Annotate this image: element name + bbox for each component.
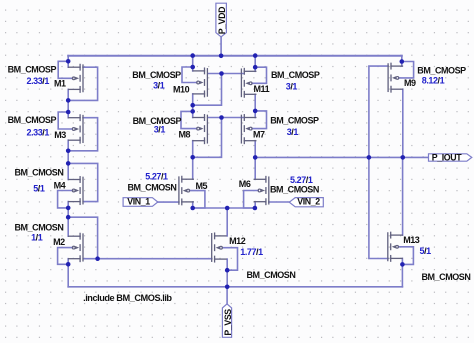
node M2 gate bias tap	[95, 256, 100, 261]
wire M1 gate-drain diode	[58, 61, 72, 78]
transistor M4	[79, 177, 81, 183]
wire M12 to VSS rail	[226, 270, 228, 287]
svg-text:VIN_1: VIN_1	[127, 196, 150, 206]
svg-text:BM_CMOSP: BM_CMOSP	[270, 115, 319, 125]
transistor M13	[390, 232, 392, 238]
wire output rail to P_IOUT	[255, 156, 428, 158]
svg-text:3/1: 3/1	[153, 80, 165, 90]
wire M12 source down	[226, 259, 228, 270]
wire M6 source down	[254, 202, 256, 208]
port P_VDD	[216, 3, 227, 37]
node M13 source junction	[400, 262, 405, 267]
wire M8 source down to node A	[192, 141, 194, 180]
node M3 top junction	[66, 110, 71, 115]
svg-text:P_IOUT: P_IOUT	[432, 152, 462, 162]
svg-text:5.27/1: 5.27/1	[145, 171, 168, 181]
wire bias to M12 gate	[98, 258, 212, 260]
transistor M7	[243, 115, 245, 121]
wire M2 source down	[67, 259, 69, 265]
node A junction	[190, 155, 195, 160]
wire M7 bulk detour	[252, 111, 267, 129]
node M8 bulk junction	[190, 109, 195, 114]
svg-text:3/1: 3/1	[287, 127, 299, 137]
svg-text:BM_CMOSN: BM_CMOSN	[15, 223, 64, 233]
node M5 source junction	[190, 206, 195, 211]
svg-text:M11: M11	[254, 84, 270, 94]
wire M6 gate to VIN_2	[269, 201, 290, 203]
wire VDD rail drop to M9	[401, 56, 403, 67]
port P_IOUT	[8, 53, 472, 303]
svg-text:5/1: 5/1	[420, 246, 432, 256]
svg-text:5.27/1: 5.27/1	[290, 175, 313, 185]
node M11 bulk junction	[253, 65, 258, 70]
node M9 gate output junction	[367, 155, 372, 160]
wire M10-M11 gate mirror	[208, 73, 243, 75]
transistor M6	[265, 177, 267, 183]
svg-text:1.77/1: 1.77/1	[240, 247, 263, 257]
svg-text:BM_CMOSN: BM_CMOSN	[422, 272, 471, 282]
node M4 top junction	[66, 161, 71, 166]
transistor M1	[79, 64, 81, 70]
wire M4 bulk to source	[58, 191, 73, 208]
wire VDD to M11	[254, 56, 256, 72]
node M2 source junction	[66, 262, 71, 267]
svg-text:.include BM_CMOS.lib: .include BM_CMOS.lib	[83, 293, 172, 303]
transistor M12	[214, 233, 216, 239]
wire M4 source down	[67, 202, 69, 208]
wire VDD rail	[68, 55, 402, 57]
svg-text:2.33/1: 2.33/1	[27, 127, 50, 137]
wire M12 drain up	[226, 208, 228, 236]
transistor M8	[204, 115, 206, 121]
node M1 drain junction	[66, 59, 71, 64]
node mirror gate junction	[219, 71, 224, 76]
svg-text:M12: M12	[229, 236, 246, 246]
wire tail	[193, 207, 255, 209]
wire M1 gate loop	[68, 67, 97, 100]
wire VDD to M10	[192, 56, 194, 71]
wire M10 drain down	[192, 94, 194, 118]
wire M13 to VSS rail	[401, 264, 403, 286]
node P_VDD rail junction	[219, 54, 224, 59]
wire M2 gate-drain loop	[68, 217, 97, 259]
wire M3 source down	[67, 140, 69, 151]
svg-text:3/1: 3/1	[286, 82, 298, 92]
svg-text:1/1: 1/1	[31, 232, 43, 242]
svg-text:3/1: 3/1	[154, 124, 166, 134]
transistor M5	[181, 176, 183, 182]
svg-text:BM_CMOSP: BM_CMOSP	[271, 70, 320, 80]
wire M4 gate-drain loop	[68, 163, 98, 201]
node M7 bulk junction	[253, 109, 258, 114]
svg-text:VIN_2: VIN_2	[297, 196, 320, 206]
node output rail drain junction	[401, 155, 406, 160]
port P_VSS	[222, 304, 233, 337]
svg-text:M3: M3	[54, 130, 66, 140]
wire M3 gate loop	[68, 118, 97, 151]
node M10 drain junction	[190, 103, 195, 108]
node VSS rail junction	[225, 285, 230, 290]
transistor M2	[79, 233, 81, 239]
svg-text:BM_CMOSN: BM_CMOSN	[128, 183, 177, 193]
node M1-M3 junction	[66, 98, 71, 103]
node M10 bulk junction	[190, 65, 195, 70]
node M9 source junction	[400, 59, 405, 64]
wire M13 bulk loop	[398, 247, 413, 265]
node tail junction	[225, 206, 230, 211]
svg-text:BM_CMOSP: BM_CMOSP	[417, 66, 466, 76]
svg-text:M10: M10	[173, 85, 190, 95]
port VIN_2	[8, 53, 471, 303]
node M4 source junction	[66, 206, 71, 211]
wire VSS rail	[68, 286, 402, 288]
svg-text:M8: M8	[179, 130, 191, 140]
transistor M11	[243, 69, 245, 75]
svg-text:M13: M13	[403, 235, 420, 245]
wire VIN_1 to M5 gate	[158, 201, 179, 203]
node VDD-M11 junction	[253, 53, 258, 58]
node VDD-M10 junction	[190, 53, 195, 58]
svg-text:8.12/1: 8.12/1	[422, 76, 445, 86]
wire M5 source down	[192, 202, 194, 208]
wire M3 to M4	[67, 151, 69, 180]
transistor M9	[390, 63, 392, 69]
wire P_VSS to rail	[226, 287, 228, 304]
wire M1 to M3	[67, 100, 69, 117]
wire M5 bulk loop	[190, 191, 205, 208]
wire M12 bulk loop	[222, 248, 237, 271]
wire M8 bulk detour	[181, 111, 197, 128]
transistor M3	[79, 115, 81, 121]
svg-text:5/1: 5/1	[33, 183, 45, 193]
svg-text:M2: M2	[53, 237, 65, 247]
wire M13 source down	[401, 258, 403, 264]
node M3-M4 junction	[66, 149, 71, 154]
wire M11 bulk detour	[252, 67, 267, 83]
svg-text:M9: M9	[404, 78, 416, 88]
svg-text:BM_CMOSP: BM_CMOSP	[8, 115, 57, 125]
wire M2 to VSS rail	[67, 264, 69, 287]
svg-text:P_VSS: P_VSS	[223, 309, 233, 336]
wire M9 gate down to output	[369, 66, 388, 258]
svg-text:BM_CMOSP: BM_CMOSP	[132, 70, 181, 80]
wire M8-M7 gate mirror	[208, 117, 243, 119]
wire VDD rail drop to M1	[67, 56, 69, 68]
wire M9 bulk loop	[399, 62, 414, 78]
svg-text:M1: M1	[54, 78, 66, 88]
svg-text:BM_CMOSN: BM_CMOSN	[270, 184, 319, 194]
wire M11 drain down	[254, 94, 256, 117]
wire M7 drain down to node B	[254, 141, 256, 180]
wire output rail down to M13	[402, 157, 404, 235]
svg-text:M7: M7	[253, 129, 265, 139]
svg-text:BM_CMOSP: BM_CMOSP	[8, 65, 57, 75]
wire M4 to M2	[67, 208, 69, 236]
node M6 source junction	[253, 206, 258, 211]
wire P_VDD to rail	[220, 37, 222, 56]
svg-text:BM_CMOSN: BM_CMOSN	[247, 270, 296, 280]
transistor M10	[204, 68, 206, 74]
node M2 top junction	[66, 215, 71, 220]
wire M1 source down	[67, 89, 69, 100]
node M8 gate junction	[219, 115, 224, 120]
svg-text:M4: M4	[54, 181, 66, 191]
svg-text:P_VDD: P_VDD	[217, 7, 227, 34]
wire M9 drain to output rail	[402, 89, 404, 157]
wire M6 bulk loop	[244, 191, 259, 209]
node M12 source junction	[225, 268, 230, 273]
node B junction on output rail	[253, 155, 258, 160]
wire M10 bulk detour	[182, 67, 197, 83]
wire M3 gate-drain diode	[58, 112, 72, 129]
wire M8 gate to node A	[193, 118, 222, 158]
wire M10 gate to drain	[193, 74, 222, 106]
svg-text:M5: M5	[196, 181, 208, 191]
svg-text:M6: M6	[239, 179, 251, 189]
port VIN_1	[8, 53, 471, 303]
wire M2 bulk to source	[58, 248, 73, 265]
svg-text:BM_CMOSN: BM_CMOSN	[15, 168, 64, 178]
svg-text:2.33/1: 2.33/1	[27, 76, 50, 86]
